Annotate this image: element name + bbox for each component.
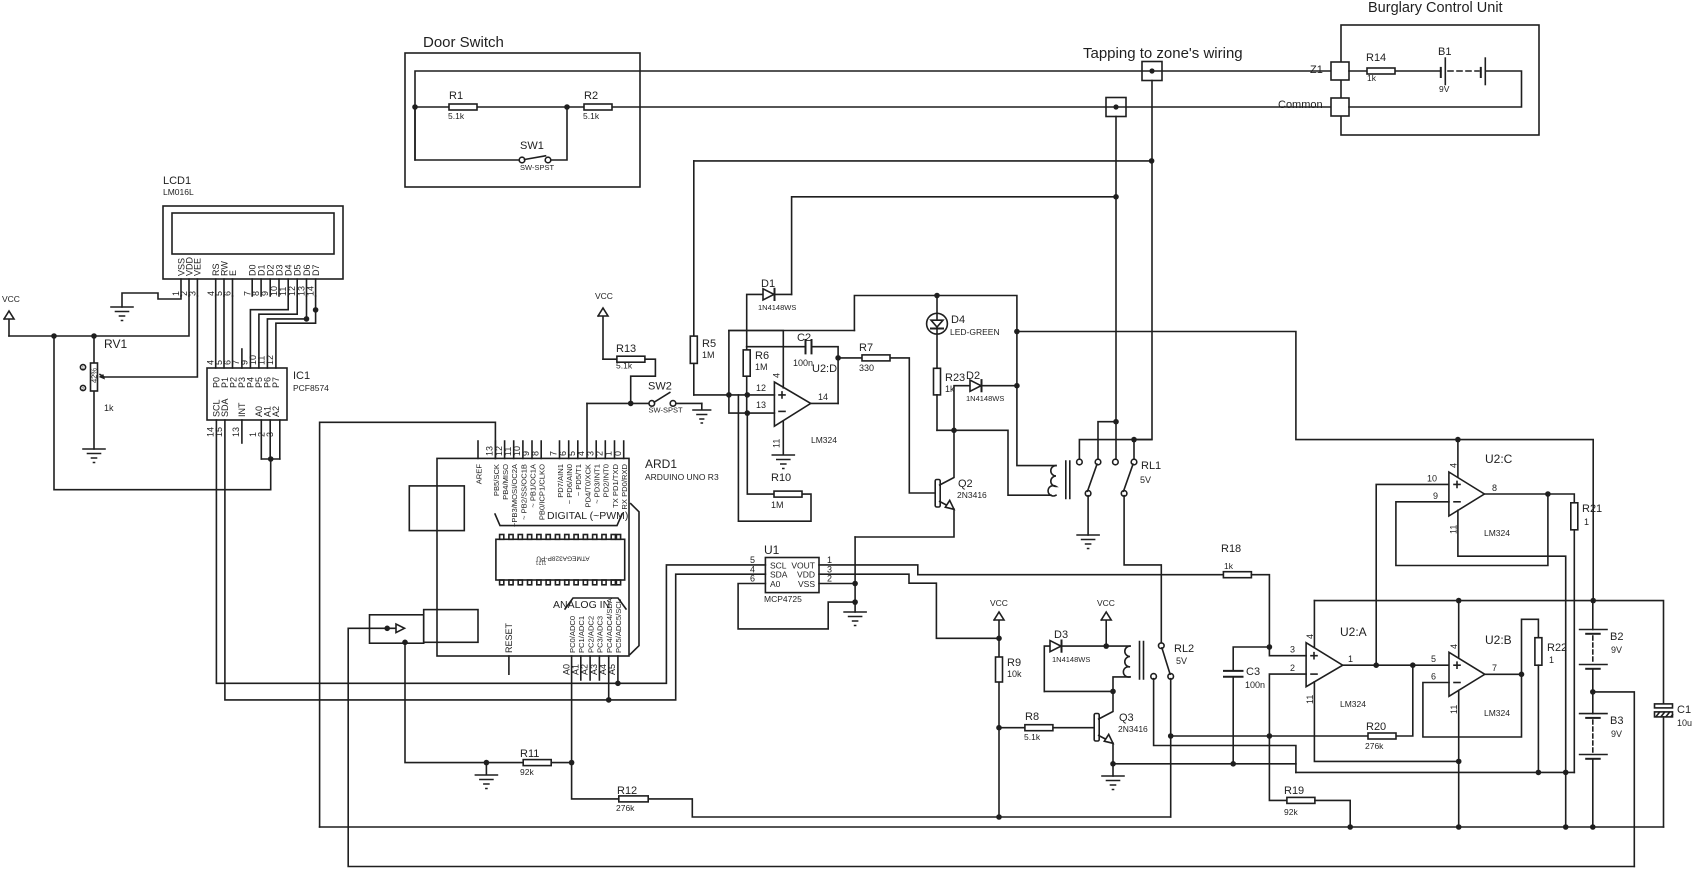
battery B1 9V bbox=[1349, 46, 1522, 107]
wires: LCD RS RW E to IC1 P0 P1 P2 bbox=[216, 296, 233, 368]
svg-text:R6: R6 bbox=[755, 350, 769, 362]
Arduino analog pin numbers A0-A5 bbox=[561, 664, 617, 675]
ground (U2:D pin 11) bbox=[772, 421, 794, 469]
svg-text:9: 9 bbox=[1433, 491, 1438, 501]
resistor R18 1k bbox=[1221, 543, 1272, 650]
Arduino analog pin names bbox=[568, 597, 623, 653]
ATMEGA328P chip bbox=[496, 535, 625, 585]
svg-text:~PB3/MOSI/OC2A: ~PB3/MOSI/OC2A bbox=[510, 463, 519, 527]
svg-text:276k: 276k bbox=[1365, 741, 1384, 751]
op-amp U2:D LM324 bbox=[756, 363, 837, 448]
svg-text:5.1k: 5.1k bbox=[1024, 732, 1041, 742]
svg-text:R9: R9 bbox=[1007, 657, 1021, 669]
svg-text:A0: A0 bbox=[770, 579, 781, 589]
ground (SW2) bbox=[693, 403, 711, 423]
svg-text:1121: 1121 bbox=[535, 559, 546, 565]
resistor R23 1k bbox=[934, 368, 966, 430]
svg-text:11: 11 bbox=[1449, 525, 1459, 534]
svg-text:INT: INT bbox=[237, 402, 247, 417]
svg-text:3: 3 bbox=[265, 432, 275, 437]
svg-text:5V: 5V bbox=[1140, 475, 1151, 485]
wire: U2:D pin4 jog bbox=[729, 331, 783, 414]
svg-text:D5: D5 bbox=[293, 264, 303, 276]
svg-text:A2: A2 bbox=[271, 406, 281, 417]
svg-text:TX PD1/TXD: TX PD1/TXD bbox=[611, 463, 620, 507]
Arduino top pin stubs bbox=[495, 441, 623, 458]
svg-text:R5: R5 bbox=[702, 338, 716, 350]
wire: U2:A out up to U2:C +input bbox=[1376, 484, 1449, 665]
DAC U1 MCP4725 bbox=[750, 543, 832, 604]
diode D3 1N4148WS bbox=[1044, 629, 1113, 691]
wire: D1 to tap2 line and down to U2:C rail bbox=[792, 197, 1116, 295]
wire: U2:C -input follower loop bbox=[1396, 494, 1548, 566]
svg-text:B2: B2 bbox=[1610, 631, 1623, 643]
wire: IC1 SDA to I2C bus bbox=[225, 420, 766, 703]
svg-text:PB4/MISO: PB4/MISO bbox=[501, 464, 510, 500]
svg-text:VCC: VCC bbox=[2, 294, 20, 304]
wire: U2:A pin11 to ground row bbox=[1314, 682, 1461, 764]
svg-text:U2:A: U2:A bbox=[1340, 625, 1367, 639]
svg-text:R11: R11 bbox=[520, 748, 539, 760]
Arduino pin 4 wire up to SW2 line bbox=[586, 403, 588, 458]
svg-text:D2: D2 bbox=[966, 370, 980, 382]
resistor R20 276k bbox=[1269, 665, 1412, 751]
svg-text:ARD1: ARD1 bbox=[645, 457, 677, 471]
svg-text:2N3416: 2N3416 bbox=[1118, 724, 1148, 734]
svg-text:1N4148WS: 1N4148WS bbox=[758, 303, 796, 312]
svg-text:SW1: SW1 bbox=[520, 140, 544, 152]
svg-text:R23: R23 bbox=[945, 372, 965, 384]
transistor Q2 2N3416 bbox=[855, 430, 987, 537]
LED D4 LED-GREEN bbox=[927, 296, 1000, 369]
svg-text:R8: R8 bbox=[1025, 711, 1039, 723]
terminal square: tap 2 on common wire bbox=[1106, 98, 1126, 117]
node: R1 left junction bbox=[412, 104, 418, 110]
resistor R19 92k bbox=[1284, 785, 1350, 827]
capacitor C2 100n bbox=[747, 332, 838, 403]
wire: U2:A pin4 bbox=[1313, 601, 1315, 648]
resistor R11 92k bbox=[484, 748, 575, 777]
wire: Q2 emitter ground vertical bbox=[854, 537, 856, 612]
resistor R14 bbox=[1349, 52, 1441, 83]
svg-text:PD2/INT0: PD2/INT0 bbox=[602, 464, 611, 497]
diode D2 1N4148WS bbox=[954, 370, 1020, 430]
terminal Z1 bbox=[1310, 62, 1349, 80]
svg-text:C3: C3 bbox=[1246, 666, 1260, 678]
switch SW1 SW-SPST bbox=[415, 107, 567, 172]
svg-text:SDA: SDA bbox=[220, 398, 230, 417]
svg-text:13: 13 bbox=[756, 400, 766, 410]
potentiometer RV1 1k bbox=[80, 336, 127, 449]
svg-text:ARDUINO UNO R3: ARDUINO UNO R3 bbox=[645, 472, 719, 482]
svg-text:4: 4 bbox=[1449, 644, 1459, 649]
svg-text:MCP4725: MCP4725 bbox=[764, 594, 802, 604]
switch SW2 SW-SPST bbox=[587, 381, 702, 415]
label ANALOG IN with bracket bbox=[553, 598, 626, 611]
svg-text:D4: D4 bbox=[951, 314, 965, 326]
svg-text:R14: R14 bbox=[1366, 52, 1386, 64]
wire: U2:B pin4 to V+ rail bbox=[1456, 598, 1462, 658]
svg-text:LM324: LM324 bbox=[1484, 528, 1510, 538]
wire: left VCC rail down to IC1 A0-A2 bbox=[54, 336, 280, 490]
wire: battery midpoint to bottom rail bbox=[1593, 692, 1635, 867]
IC1 INT stub bbox=[241, 420, 243, 443]
svg-text:12: 12 bbox=[265, 355, 275, 365]
relay RL2 contacts bbox=[1151, 643, 1296, 817]
svg-text:R21: R21 bbox=[1582, 503, 1602, 515]
wire: VCC rail to LCD VDD bbox=[9, 296, 189, 339]
wire: power jack bottom to R11 ground net bbox=[402, 640, 486, 763]
svg-text:C2: C2 bbox=[797, 332, 811, 344]
resistor R22 1 bbox=[1535, 638, 1567, 776]
power VCC (R13) bbox=[595, 291, 613, 359]
svg-text:276k: 276k bbox=[616, 803, 635, 813]
LCD pin stubs bbox=[181, 279, 316, 296]
wire: R5 top line to tap1 bbox=[694, 160, 1152, 162]
svg-text:5.1k: 5.1k bbox=[616, 361, 633, 371]
svg-text:3: 3 bbox=[1290, 645, 1295, 655]
svg-text:9V: 9V bbox=[1611, 645, 1622, 655]
svg-text:1: 1 bbox=[1348, 654, 1353, 664]
svg-text:PC2/ADC2: PC2/ADC2 bbox=[586, 616, 595, 653]
svg-text:D3: D3 bbox=[1054, 629, 1068, 641]
wire: D4 supply row bbox=[729, 293, 1017, 386]
svg-text:LM324: LM324 bbox=[1340, 699, 1366, 709]
svg-text:RL2: RL2 bbox=[1174, 643, 1194, 655]
svg-text:9V: 9V bbox=[1439, 84, 1450, 94]
Arduino pin 13 wire to left rail bbox=[320, 422, 496, 827]
svg-text:R20: R20 bbox=[1366, 721, 1386, 733]
svg-text:B1: B1 bbox=[1438, 46, 1451, 58]
svg-text:AREF: AREF bbox=[474, 464, 483, 485]
svg-text:Q2: Q2 bbox=[958, 478, 973, 490]
wire: U2:B -input follower loop bbox=[1423, 674, 1522, 737]
label DIGITAL (~PWM) with bracket bbox=[495, 510, 628, 526]
wire: Arduino A4 to SDA bus bbox=[608, 656, 610, 700]
resistor R6 1M bbox=[743, 347, 769, 413]
op-amp U2:B LM324 bbox=[1431, 633, 1512, 718]
wire: ground rail bbox=[320, 824, 1664, 830]
wire: Arduino A0 down to R11 node bbox=[571, 656, 573, 763]
svg-text:U1: U1 bbox=[764, 543, 780, 557]
svg-text:5V: 5V bbox=[1176, 656, 1187, 666]
svg-text:SW-SPST: SW-SPST bbox=[649, 406, 683, 415]
Arduino USB connector bbox=[409, 486, 464, 531]
resistor R12 276k bbox=[572, 763, 1171, 820]
terminal square: tap 1 on zone wire bbox=[1142, 62, 1162, 81]
svg-text:LM324: LM324 bbox=[1484, 708, 1510, 718]
svg-text:LM016L: LM016L bbox=[163, 187, 194, 197]
svg-text:10: 10 bbox=[1427, 474, 1437, 484]
Arduino power jack bbox=[370, 610, 479, 644]
capacitor C3 100n bbox=[1224, 647, 1269, 764]
wire: U1 VSS to ground rail bbox=[819, 581, 858, 587]
wire: D2 net to U2:C feed row bbox=[1014, 329, 1593, 601]
svg-text:PC5/ADC5/SCL: PC5/ADC5/SCL bbox=[614, 599, 623, 653]
svg-text:IC1: IC1 bbox=[293, 370, 310, 382]
resistor R10 1M bbox=[738, 395, 811, 521]
svg-text:1M: 1M bbox=[771, 500, 784, 510]
LCD1 LM016L display bbox=[163, 175, 343, 279]
wire: Q2 collector row to RL1 coil bbox=[937, 428, 1051, 496]
svg-text:PD4/T0/XCK: PD4/T0/XCK bbox=[583, 464, 592, 507]
svg-text:1N4148WS: 1N4148WS bbox=[966, 394, 1004, 403]
wire: door switch top loop to Z1 bbox=[415, 71, 1331, 160]
svg-text:Z1: Z1 bbox=[1310, 64, 1323, 76]
svg-text:4: 4 bbox=[1449, 463, 1459, 468]
svg-text:PB5/SCK: PB5/SCK bbox=[492, 464, 501, 496]
wire: U2:C pin4 to feed row bbox=[1455, 437, 1461, 477]
LCD pin name labels bbox=[177, 256, 322, 276]
svg-text:11: 11 bbox=[1305, 695, 1315, 704]
LCD pin numbers 1-14 bbox=[171, 286, 316, 296]
resistor R9 10k bbox=[996, 638, 1023, 730]
svg-text:LCD1: LCD1 bbox=[163, 175, 191, 187]
wire: Arduino A5 to SCL bus bbox=[617, 656, 619, 683]
svg-text:DIGITAL (~PWM): DIGITAL (~PWM) bbox=[547, 510, 628, 522]
resistor R13 5.1k bbox=[603, 343, 655, 403]
svg-text:1M: 1M bbox=[755, 362, 768, 372]
wire: U2:A +input from R18/C3 node bbox=[1269, 647, 1306, 656]
resistor R1 bbox=[415, 90, 567, 121]
svg-text:~ PD3/INT1: ~ PD3/INT1 bbox=[593, 464, 602, 504]
svg-text:U2:B: U2:B bbox=[1485, 633, 1512, 647]
svg-text:VCC: VCC bbox=[595, 291, 613, 301]
wire: U2:A output bbox=[1343, 662, 1449, 668]
Arduino top pin names bbox=[474, 463, 629, 527]
svg-text:4: 4 bbox=[771, 373, 781, 378]
node: Q3 collector / RL2 coil / D3 bbox=[1110, 689, 1116, 695]
resistor R7 330 bbox=[838, 342, 936, 493]
svg-text:11: 11 bbox=[1449, 705, 1459, 714]
svg-text:PB0/ICP1/CLKO: PB0/ICP1/CLKO bbox=[538, 464, 547, 520]
svg-text:5: 5 bbox=[1431, 654, 1436, 664]
svg-text:2N3416: 2N3416 bbox=[957, 490, 987, 500]
svg-text:R18: R18 bbox=[1221, 543, 1241, 555]
terminal Common bbox=[1278, 98, 1349, 116]
svg-text:13: 13 bbox=[231, 427, 241, 437]
svg-text:Door Switch: Door Switch bbox=[423, 34, 504, 51]
node: R1-R2 junction bbox=[564, 104, 570, 110]
svg-text:PC3/ADC3: PC3/ADC3 bbox=[596, 616, 605, 653]
svg-text:1k: 1k bbox=[1367, 73, 1377, 83]
svg-text:4: 4 bbox=[1305, 634, 1315, 639]
wire: U2:C output to R21 bbox=[1484, 491, 1574, 503]
svg-text:RX PD0/RXD: RX PD0/RXD bbox=[620, 463, 629, 509]
wires: LCD D4-D7 stepped to IC1 P4-P7 bbox=[250, 296, 318, 368]
wire: tap2 down to D1 line and RL1 bbox=[1098, 117, 1119, 461]
svg-text:10k: 10k bbox=[1007, 669, 1022, 679]
wire: U1 VOUT to R18 bbox=[819, 565, 1223, 575]
svg-text:R1: R1 bbox=[449, 90, 463, 102]
svg-text:VSS: VSS bbox=[798, 579, 815, 589]
svg-text:9V: 9V bbox=[1611, 729, 1622, 739]
wire: U2:D output to R7 bbox=[811, 355, 841, 403]
svg-text:VCC: VCC bbox=[1097, 598, 1115, 608]
svg-text:1k: 1k bbox=[104, 403, 114, 413]
svg-text:PD7/AIN1: PD7/AIN1 bbox=[556, 464, 565, 498]
ground (RV1 bottom) bbox=[83, 449, 105, 463]
svg-text:8: 8 bbox=[1492, 483, 1497, 493]
svg-text:PC0/ADC0: PC0/ADC0 bbox=[568, 616, 577, 653]
svg-text:R13: R13 bbox=[616, 343, 636, 355]
wire: U2:B output node bbox=[1485, 619, 1539, 677]
svg-text:7: 7 bbox=[1492, 663, 1497, 673]
wire: LCD VEE to RV1 wiper bbox=[104, 296, 197, 377]
svg-text:10u: 10u bbox=[1677, 718, 1692, 728]
svg-text:B3: B3 bbox=[1610, 715, 1623, 727]
svg-text:14: 14 bbox=[818, 392, 828, 402]
svg-text:U2:C: U2:C bbox=[1485, 452, 1513, 466]
svg-text:100n: 100n bbox=[1245, 680, 1265, 690]
wire: R9 bottom down to R12 row bbox=[998, 728, 1000, 817]
svg-text:RESET: RESET bbox=[504, 622, 514, 653]
wire: IC1 SCL to I2C bus bbox=[216, 420, 765, 686]
relay RL1 contacts bbox=[1077, 437, 1162, 644]
svg-text:330: 330 bbox=[859, 363, 874, 373]
svg-text:SW-SPST: SW-SPST bbox=[520, 163, 554, 172]
svg-text:6: 6 bbox=[750, 574, 755, 584]
power VCC (RL2) bbox=[1097, 598, 1115, 649]
wire: power jack lead left down to bottom rail bbox=[348, 628, 1634, 866]
op-amp U2:A LM324 bbox=[1290, 625, 1367, 709]
ground (Q3 emitter) bbox=[1102, 776, 1124, 790]
ground (RL1 pole A) bbox=[1077, 535, 1099, 549]
svg-text:12: 12 bbox=[756, 383, 766, 393]
wire: tap1 down to R5 line and RL1 bbox=[1134, 81, 1154, 440]
svg-text:Q3: Q3 bbox=[1119, 712, 1134, 724]
wire: U2:A -input net down to R19/R20 bbox=[1267, 674, 1307, 800]
power VCC (R9) bbox=[990, 598, 1008, 641]
node: SW2 junction bbox=[628, 401, 634, 407]
IC1 PCF8574 bbox=[206, 349, 330, 437]
Burglary Control Unit box bbox=[1341, 0, 1539, 135]
resistor R5 1M bbox=[690, 161, 716, 395]
svg-text:D7: D7 bbox=[311, 264, 321, 276]
svg-text:1M: 1M bbox=[702, 350, 715, 360]
svg-text:R19: R19 bbox=[1284, 785, 1304, 797]
svg-text:2: 2 bbox=[1290, 663, 1295, 673]
svg-text:R10: R10 bbox=[771, 472, 791, 484]
svg-text:VEE: VEE bbox=[193, 258, 203, 276]
svg-text:~ PB2/SS/OC1B: ~ PB2/SS/OC1B bbox=[519, 464, 528, 520]
resistor R8 5.1k bbox=[999, 711, 1096, 742]
Arduino ARD1 outer box bbox=[437, 457, 719, 656]
svg-text:92k: 92k bbox=[1284, 807, 1298, 817]
svg-text:RL1: RL1 bbox=[1141, 460, 1161, 472]
svg-text:5.1k: 5.1k bbox=[583, 111, 600, 121]
Arduino RESET pin bbox=[504, 622, 514, 674]
svg-text:RV1: RV1 bbox=[104, 337, 127, 351]
svg-text:~ PD6/AIN0: ~ PD6/AIN0 bbox=[565, 464, 574, 504]
wire: reference row RL2-NC to R21/R22 bbox=[1296, 771, 1574, 773]
svg-text:5.1k: 5.1k bbox=[448, 111, 465, 121]
svg-text:C1: C1 bbox=[1677, 704, 1691, 716]
svg-text:LED-GREEN: LED-GREEN bbox=[950, 327, 1000, 337]
diode D1 1N4148WS bbox=[747, 278, 797, 347]
wire: Q3 emitter ground row bbox=[1110, 761, 1296, 776]
wire: U1 VDD to VCC node bbox=[819, 574, 999, 638]
power VCC (left) bbox=[2, 294, 20, 336]
wire: U1 A0 loop to ground bbox=[738, 584, 858, 629]
svg-text:VCC: VCC bbox=[990, 598, 1008, 608]
relay RL1 5V coil bbox=[1017, 386, 1161, 499]
svg-text:42%: 42% bbox=[90, 368, 99, 383]
svg-text:11: 11 bbox=[772, 439, 782, 448]
svg-text:Burglary Control Unit: Burglary Control Unit bbox=[1368, 0, 1503, 16]
Arduino analog pin stubs bbox=[581, 656, 600, 680]
svg-text:U2:D: U2:D bbox=[812, 363, 837, 375]
svg-text:2: 2 bbox=[827, 574, 832, 584]
resistor R21 1 bbox=[1571, 503, 1602, 773]
svg-text:15: 15 bbox=[214, 427, 224, 437]
wire: U2:D plus input row bbox=[694, 392, 775, 416]
svg-text:1N4148WS: 1N4148WS bbox=[1052, 655, 1090, 664]
svg-text:0: 0 bbox=[613, 451, 623, 456]
svg-text:8: 8 bbox=[530, 451, 540, 456]
ground (LCD VSS) bbox=[111, 307, 133, 321]
svg-text:6: 6 bbox=[1431, 672, 1436, 682]
wire: U2:C pin11 row down bbox=[1458, 510, 1569, 830]
battery B3 9V bbox=[1580, 692, 1624, 830]
svg-text:~ PD5/T1: ~ PD5/T1 bbox=[574, 464, 583, 496]
Arduino top pin numbers bbox=[485, 446, 623, 456]
relay RL2 5V coil bbox=[1106, 642, 1194, 692]
resistor R2 bbox=[567, 90, 1331, 121]
svg-text:Common: Common bbox=[1278, 99, 1323, 111]
wire: U2:B pin11 down to ground rail bbox=[1456, 691, 1462, 830]
svg-text:Tapping to zone's wiring: Tapping to zone's wiring bbox=[1083, 45, 1243, 62]
Arduino AREF stub bbox=[477, 441, 479, 458]
transistor Q3 2N3416 bbox=[1094, 691, 1148, 763]
wire: V+ rail bbox=[1314, 598, 1663, 704]
svg-text:R22: R22 bbox=[1547, 642, 1567, 654]
svg-text:R2: R2 bbox=[584, 90, 598, 102]
svg-text:P7: P7 bbox=[271, 377, 281, 388]
svg-text:92k: 92k bbox=[520, 767, 534, 777]
svg-text:100n: 100n bbox=[793, 358, 813, 368]
ground (R11) bbox=[475, 763, 497, 789]
ground (U1/Q2) bbox=[844, 612, 866, 626]
capacitor C1 10u bbox=[1655, 704, 1692, 827]
svg-text:LM324: LM324 bbox=[811, 435, 837, 445]
svg-text:PC1/ADC1: PC1/ADC1 bbox=[577, 616, 586, 653]
Arduino right side bracket bbox=[630, 504, 639, 655]
svg-text:PCF8574: PCF8574 bbox=[293, 383, 329, 393]
svg-text:PC4/ADC4/SDA: PC4/ADC4/SDA bbox=[605, 597, 614, 653]
svg-text:SW2: SW2 bbox=[648, 381, 672, 393]
op-amp U2:C LM324 bbox=[1427, 452, 1513, 538]
wire: LCD VSS to ground bbox=[122, 293, 181, 307]
svg-text:1: 1 bbox=[1549, 655, 1554, 665]
svg-text:R7: R7 bbox=[859, 342, 873, 354]
svg-text:E: E bbox=[228, 270, 238, 276]
battery B2 9V bbox=[1580, 601, 1624, 695]
svg-text:1k: 1k bbox=[1224, 561, 1234, 571]
Door Switch enclosure box bbox=[405, 34, 640, 187]
svg-text:1: 1 bbox=[1584, 517, 1589, 527]
svg-text:~ PB1/OC1A: ~ PB1/OC1A bbox=[528, 463, 537, 508]
svg-text:ANALOG IN: ANALOG IN bbox=[553, 599, 610, 611]
